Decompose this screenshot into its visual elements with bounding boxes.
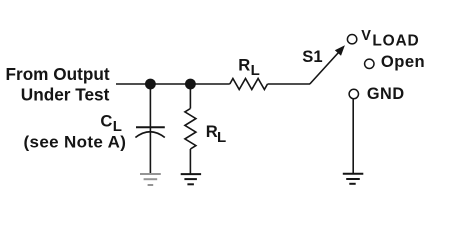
junction node 2	[185, 79, 196, 90]
svg-text:R: R	[206, 122, 218, 141]
svg-text:L: L	[251, 62, 260, 79]
terminal Open	[365, 59, 374, 68]
capacitor CL value label	[24, 111, 127, 151]
terminal VLOAD label	[361, 28, 419, 49]
svg-text:From Output: From Output	[6, 64, 110, 84]
ground (below GND terminal)	[343, 174, 364, 184]
wire: resistor to switch	[268, 83, 311, 85]
resistor RL series	[230, 79, 268, 90]
svg-text:V: V	[361, 28, 371, 44]
svg-text:Under Test: Under Test	[21, 85, 110, 105]
svg-text:Open: Open	[381, 52, 425, 71]
ground (gray, below CL)	[140, 174, 161, 185]
svg-text:GND: GND	[367, 85, 405, 103]
svg-text:L: L	[217, 129, 226, 146]
svg-text:R: R	[238, 55, 250, 74]
wire: resistor shunt branch top	[189, 84, 191, 109]
svg-text:(see Note A): (see Note A)	[24, 132, 127, 151]
resistor RL shunt label	[206, 122, 226, 146]
node: From Output Under Test label	[6, 64, 110, 105]
switch S1 blade	[310, 53, 339, 85]
terminal VLOAD	[347, 35, 356, 44]
svg-text:LOAD: LOAD	[372, 33, 419, 50]
switch S1 arrowhead	[335, 45, 345, 56]
ground (below RL shunt)	[181, 174, 201, 184]
svg-text:C: C	[100, 111, 112, 130]
wire: capacitor branch vertical	[149, 84, 151, 174]
wire: GND terminal to ground	[352, 99, 354, 173]
svg-text:S1: S1	[302, 47, 322, 66]
junction node 1	[145, 79, 156, 90]
resistor RL series label	[238, 55, 260, 79]
terminal GND	[349, 89, 358, 98]
wire: input horizontal to resistor	[116, 83, 230, 85]
wire: resistor shunt branch bottom	[189, 149, 191, 174]
capacitor CL	[135, 127, 164, 137]
resistor RL shunt	[185, 109, 196, 150]
